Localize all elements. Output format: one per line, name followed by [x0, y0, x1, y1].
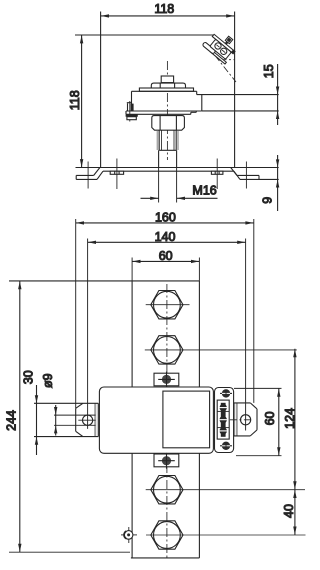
module housing: [215, 388, 234, 453]
module terminal screws (3): [221, 403, 226, 437]
washer under nut: [139, 88, 193, 91]
aux switch body: [210, 39, 232, 59]
hex nut 3: [146, 476, 305, 504]
svg-text:60: 60: [263, 411, 277, 425]
left coil screw under plate: [110, 159, 123, 190]
hex nut 4: [146, 521, 306, 549]
svg-text:9: 9: [261, 197, 275, 204]
terminal screw square below block: [154, 453, 179, 469]
svg-text:30: 30: [22, 370, 36, 384]
gray shade left of block: [94, 403, 96, 436]
aux screw 2: [219, 47, 228, 56]
column bottom edge: [131, 557, 200, 559]
aux lower flange bar: [210, 50, 226, 64]
column edge extensions up (60): [131, 258, 133, 281]
svg-text:118: 118: [154, 2, 174, 16]
clamp clip at left end of plate: [126, 101, 138, 122]
svg-text:15: 15: [262, 64, 276, 78]
stud threaded section: [159, 130, 176, 150]
base plate bottom line center: [103, 170, 234, 172]
dim 60 top: [132, 249, 199, 263]
terminal screw square above block: [154, 372, 179, 388]
svg-text:124: 124: [283, 408, 297, 429]
right foot of base plate: [231, 168, 279, 180]
horizontal centerline of aux block: [220, 59, 235, 61]
left mounting ear: [34, 403, 98, 436]
column centerline: [166, 284, 168, 391]
base plate top line (with left and right extensions): [76, 167, 279, 169]
svg-text:M16: M16: [192, 184, 216, 198]
aux bar end cap dark: [231, 49, 236, 54]
dim 140: [88, 230, 246, 244]
window inside block: [163, 391, 210, 448]
diagonal centerline of aux block: [215, 56, 236, 83]
right mounting ear: [230, 403, 257, 437]
dim o9: [41, 373, 96, 435]
stud shank below thread: [159, 150, 177, 167]
dim 244 left: [5, 281, 130, 552]
module mounting screw top: [222, 389, 230, 397]
case outline left edge (with extension up to dim): [100, 12, 102, 168]
main body block: [132, 91, 202, 111]
case outline top edge: [75, 34, 215, 36]
stud threaded section shading: [156, 131, 158, 150]
svg-text:118: 118: [68, 90, 82, 110]
dim 9 right: [261, 155, 280, 211]
dim M16: [141, 168, 218, 203]
right arm top line to 15-dim: [197, 94, 279, 96]
svg-text:160: 160: [155, 210, 176, 224]
dim 15 right: [262, 64, 280, 125]
center stud centerline: [166, 61, 168, 160]
hex nut 1: [146, 291, 190, 319]
right coil screw under plate: [211, 159, 223, 190]
stud square head: [161, 76, 173, 83]
left foot hole centerline: [87, 162, 89, 189]
part top edge line with 244 extension: [9, 280, 199, 282]
extension lines left (160/140) down to ear: [75, 219, 77, 408]
svg-text:60: 60: [159, 249, 173, 263]
module terminal strip frame: [217, 400, 229, 439]
extension lines right (160/140) down to ear: [253, 219, 255, 403]
gray shade right of module: [236, 403, 238, 436]
aux bracket hook lower-left: [202, 42, 216, 54]
right arm bottom line to 15-dim: [202, 110, 279, 112]
column right edge: [198, 281, 200, 387]
aux mounting bar: [212, 34, 234, 53]
auxiliary contact block (45 deg at top-right corner): [202, 27, 240, 82]
left foot of base plate: [76, 168, 103, 180]
thin base of body / plate with step: [126, 111, 202, 114]
main block (rounded): [99, 387, 213, 453]
dim 160: [76, 210, 254, 224]
right foot hole centerline: [245, 162, 247, 189]
hex jam nut (side view): [151, 83, 185, 88]
aux screw 1: [214, 42, 223, 51]
dim 124 and 40 shared line: [282, 349, 297, 535]
dim 30: [22, 370, 39, 455]
svg-text:244: 244: [5, 410, 19, 431]
svg-text:140: 140: [155, 230, 176, 244]
dim 118 vertical left: [68, 35, 83, 168]
column left edge: [131, 281, 133, 387]
svg-text:ø9: ø9: [41, 373, 55, 388]
M16 hex nut (side view): [152, 116, 185, 131]
svg-text:40: 40: [282, 504, 296, 518]
case outline right edge (with extension up to dim): [234, 12, 236, 168]
aux nut on bar: [225, 36, 232, 43]
small screw at bottom-left of column: [121, 527, 137, 543]
hex nut 2: [145, 336, 297, 364]
dim 118 horizontal top: [101, 2, 235, 17]
module mounting screw bottom: [222, 442, 230, 450]
dim 60 right: [234, 388, 282, 455]
aux terminal module right of window: [215, 388, 234, 453]
